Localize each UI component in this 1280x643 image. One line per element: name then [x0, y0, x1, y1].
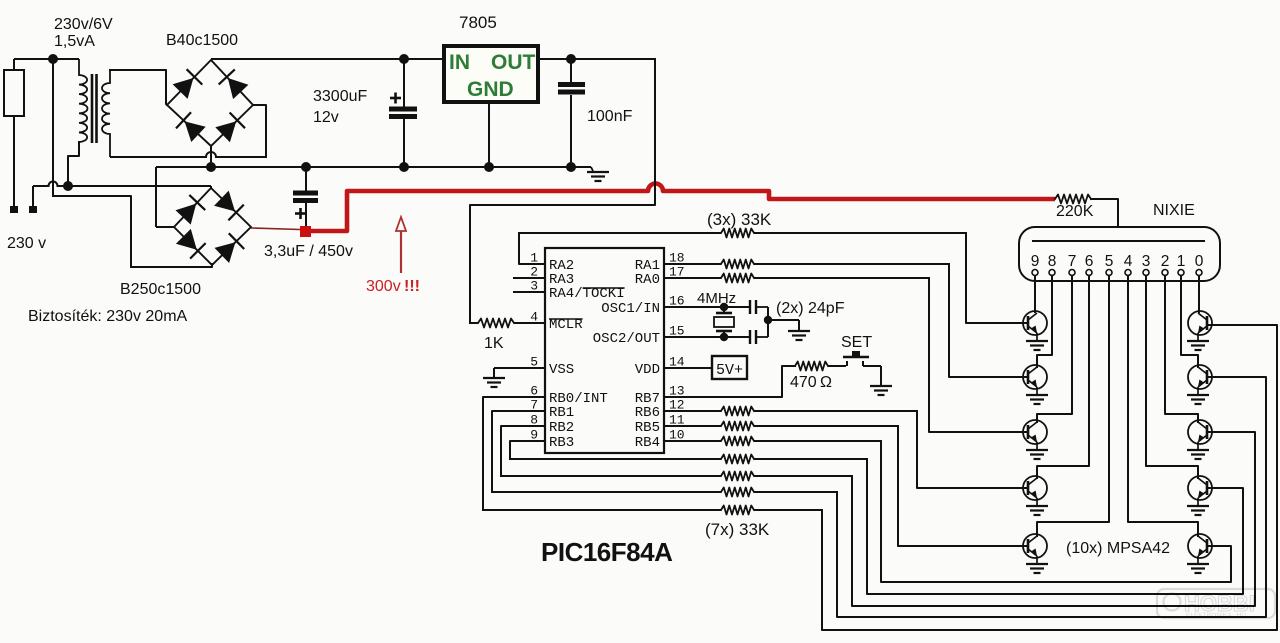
svg-text:VSS: VSS — [549, 362, 574, 378]
svg-text:230 v: 230 v — [7, 235, 46, 252]
svg-text:(7x) 33K: (7x) 33K — [705, 520, 770, 539]
svg-text:GND: GND — [467, 78, 514, 101]
svg-text:220K: 220K — [1056, 203, 1094, 220]
svg-text:100nF: 100nF — [587, 108, 633, 125]
svg-text:PIC16F84A: PIC16F84A — [541, 537, 673, 567]
svg-text:(10x) MPSA42: (10x) MPSA42 — [1066, 540, 1170, 557]
svg-text:1: 1 — [1177, 253, 1186, 270]
svg-text:300v: 300v — [366, 278, 401, 295]
svg-text:4MHz: 4MHz — [697, 290, 736, 307]
svg-text:3300uF: 3300uF — [313, 88, 367, 105]
svg-text:9: 9 — [1031, 253, 1040, 270]
svg-text:Ω: Ω — [820, 374, 832, 391]
svg-text:OSC1/IN: OSC1/IN — [601, 301, 660, 317]
svg-text:1,5vA: 1,5vA — [54, 33, 95, 50]
svg-text:RA0: RA0 — [635, 272, 660, 288]
svg-text:RB6: RB6 — [635, 405, 660, 421]
svg-text:8: 8 — [1048, 253, 1057, 270]
svg-text:IN: IN — [449, 51, 470, 74]
svg-text:!!!: !!! — [404, 278, 420, 295]
svg-text:12v: 12v — [313, 109, 339, 126]
svg-text:RB5: RB5 — [635, 420, 660, 436]
svg-text:0: 0 — [1195, 253, 1204, 270]
svg-text:4: 4 — [1124, 253, 1133, 270]
svg-text:B40c1500: B40c1500 — [166, 32, 238, 49]
svg-text:7: 7 — [1068, 253, 1077, 270]
svg-text:SET: SET — [841, 334, 872, 351]
svg-text:230v/6V: 230v/6V — [54, 16, 113, 33]
svg-text:RB3: RB3 — [549, 435, 574, 451]
svg-text:5: 5 — [1105, 253, 1114, 270]
svg-text:Biztosíték: 230v 20mA: Biztosíték: 230v 20mA — [28, 308, 188, 325]
svg-text:1K: 1K — [484, 335, 504, 352]
svg-text:5V+: 5V+ — [716, 362, 743, 379]
svg-text:B250c1500: B250c1500 — [120, 281, 201, 298]
svg-text:RB1: RB1 — [549, 405, 574, 421]
svg-text:4: 4 — [530, 310, 538, 325]
svg-text:RB2: RB2 — [549, 420, 574, 436]
svg-text:VDD: VDD — [635, 362, 660, 378]
svg-text:3: 3 — [1142, 253, 1151, 270]
svg-text:RB4: RB4 — [635, 435, 660, 451]
svg-text:(2x) 24pF: (2x) 24pF — [776, 300, 845, 317]
svg-text:7805: 7805 — [459, 13, 497, 32]
svg-text:2: 2 — [1161, 253, 1170, 270]
svg-text:3,3uF / 450v: 3,3uF / 450v — [264, 243, 353, 260]
svg-text:6: 6 — [1085, 253, 1094, 270]
svg-text:NIXIE: NIXIE — [1153, 202, 1195, 219]
svg-text:OUT: OUT — [491, 51, 536, 74]
svg-text:470: 470 — [790, 374, 817, 391]
svg-text:OSC2/OUT: OSC2/OUT — [593, 331, 660, 347]
svg-text:(3x) 33K: (3x) 33K — [707, 210, 772, 229]
